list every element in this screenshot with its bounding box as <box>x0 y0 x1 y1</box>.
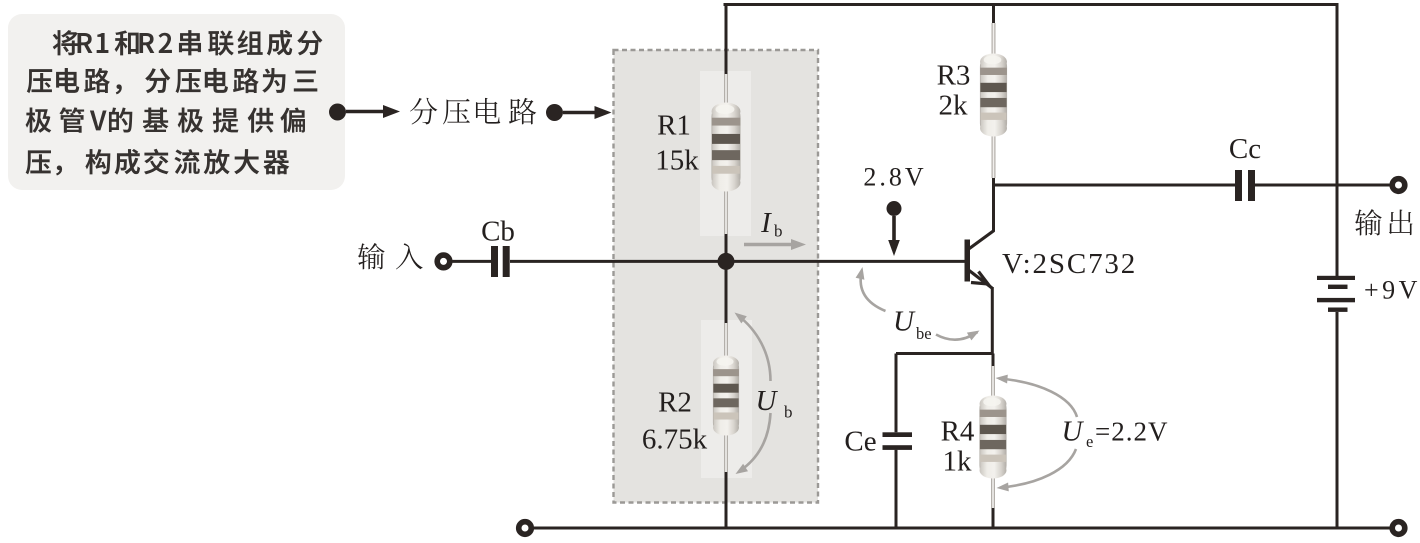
wire Cc to output <box>1255 184 1390 187</box>
wire R1 to R2 through base node <box>725 234 728 323</box>
svg-text:15k: 15k <box>655 145 699 177</box>
wire Ce bottom to rail <box>895 450 898 528</box>
svg-text:=2.2V: =2.2V <box>1095 417 1168 447</box>
label 分压电路 <box>410 98 536 125</box>
svg-text:I: I <box>760 207 772 239</box>
ground terminal bottom left <box>519 522 532 535</box>
wire R2 to bottom rail <box>725 472 728 528</box>
transistor V (2SC732) <box>965 240 971 282</box>
svg-text:1k: 1k <box>943 446 973 478</box>
resistor R1 <box>724 74 728 103</box>
wire top rail <box>725 3 1337 5</box>
svg-text:R4: R4 <box>941 416 975 448</box>
wire R4 to bottom rail <box>992 508 995 528</box>
ground terminal bottom right <box>1392 522 1405 535</box>
label 输出 <box>1355 209 1413 235</box>
wire input to Cb <box>453 260 492 263</box>
voltage arc Ub <box>738 315 771 381</box>
svg-text:Ce: Ce <box>844 426 876 458</box>
svg-text:U: U <box>756 385 779 417</box>
node 2.8V probe dot <box>887 201 902 216</box>
voltage arc Ube right <box>936 332 978 340</box>
svg-text:R2: R2 <box>658 387 692 419</box>
callout dot 2 <box>546 104 563 121</box>
voltage arc Ube left <box>861 272 886 311</box>
wire R3 to collector node <box>992 178 995 187</box>
capacitor Cb <box>491 246 498 277</box>
wire right rail lower (battery to bottom) <box>1336 312 1339 528</box>
wire emitter to R4 <box>992 354 995 367</box>
callout arrow 2 <box>563 111 596 114</box>
voltage divider dashed box <box>614 50 819 503</box>
resistor R2 <box>724 323 728 356</box>
wire collector vertical <box>992 185 995 232</box>
annotation note box <box>8 14 345 190</box>
resistor R4 <box>991 366 995 396</box>
label 输入 <box>358 243 423 269</box>
node base junction <box>718 253 735 270</box>
svg-text:b: b <box>774 222 783 241</box>
wire Cb to base <box>510 260 965 263</box>
svg-text:e: e <box>1086 432 1093 451</box>
input terminal <box>437 255 450 268</box>
voltage arc Ue top <box>999 379 1077 418</box>
svg-text:R3: R3 <box>937 59 971 91</box>
callout dot at note box <box>329 104 346 121</box>
svg-text:b: b <box>784 403 793 422</box>
svg-text:2.8V: 2.8V <box>863 163 926 192</box>
R2 photo background <box>701 320 752 478</box>
battery +9V <box>1317 276 1355 280</box>
capacitor Ce <box>883 432 913 437</box>
svg-text:2k: 2k <box>939 90 969 122</box>
callout arrow 1 <box>346 110 384 113</box>
resistor R3 <box>992 23 996 54</box>
wire left branch above R1 <box>725 5 728 75</box>
voltage arc Ue bottom <box>1001 449 1076 488</box>
svg-text:U: U <box>1062 416 1085 448</box>
output terminal <box>1392 179 1405 192</box>
wire bottom rail <box>534 527 1390 530</box>
wire emitter vertical <box>991 287 994 355</box>
svg-text:be: be <box>916 324 932 343</box>
current arrow Ib <box>744 243 792 246</box>
wire collector node to Cc <box>992 184 1235 187</box>
R1 photo background <box>700 71 751 236</box>
capacitor Cc <box>1235 170 1242 201</box>
svg-text:R1: R1 <box>657 110 691 142</box>
wire top rail to R3 <box>992 5 995 24</box>
svg-text:+9V: +9V <box>1364 276 1420 305</box>
svg-text:U: U <box>893 306 916 338</box>
svg-text:Cb: Cb <box>481 216 515 248</box>
svg-text:V:2SC732: V:2SC732 <box>1002 248 1137 280</box>
svg-text:Cc: Cc <box>1229 133 1261 165</box>
2.8V probe arrow <box>892 216 896 241</box>
svg-text:6.75k: 6.75k <box>642 424 708 456</box>
wire Ce top <box>895 354 898 433</box>
wire right rail upper (to battery) <box>1336 3 1339 276</box>
wire emitter to Ce branch <box>896 352 993 355</box>
